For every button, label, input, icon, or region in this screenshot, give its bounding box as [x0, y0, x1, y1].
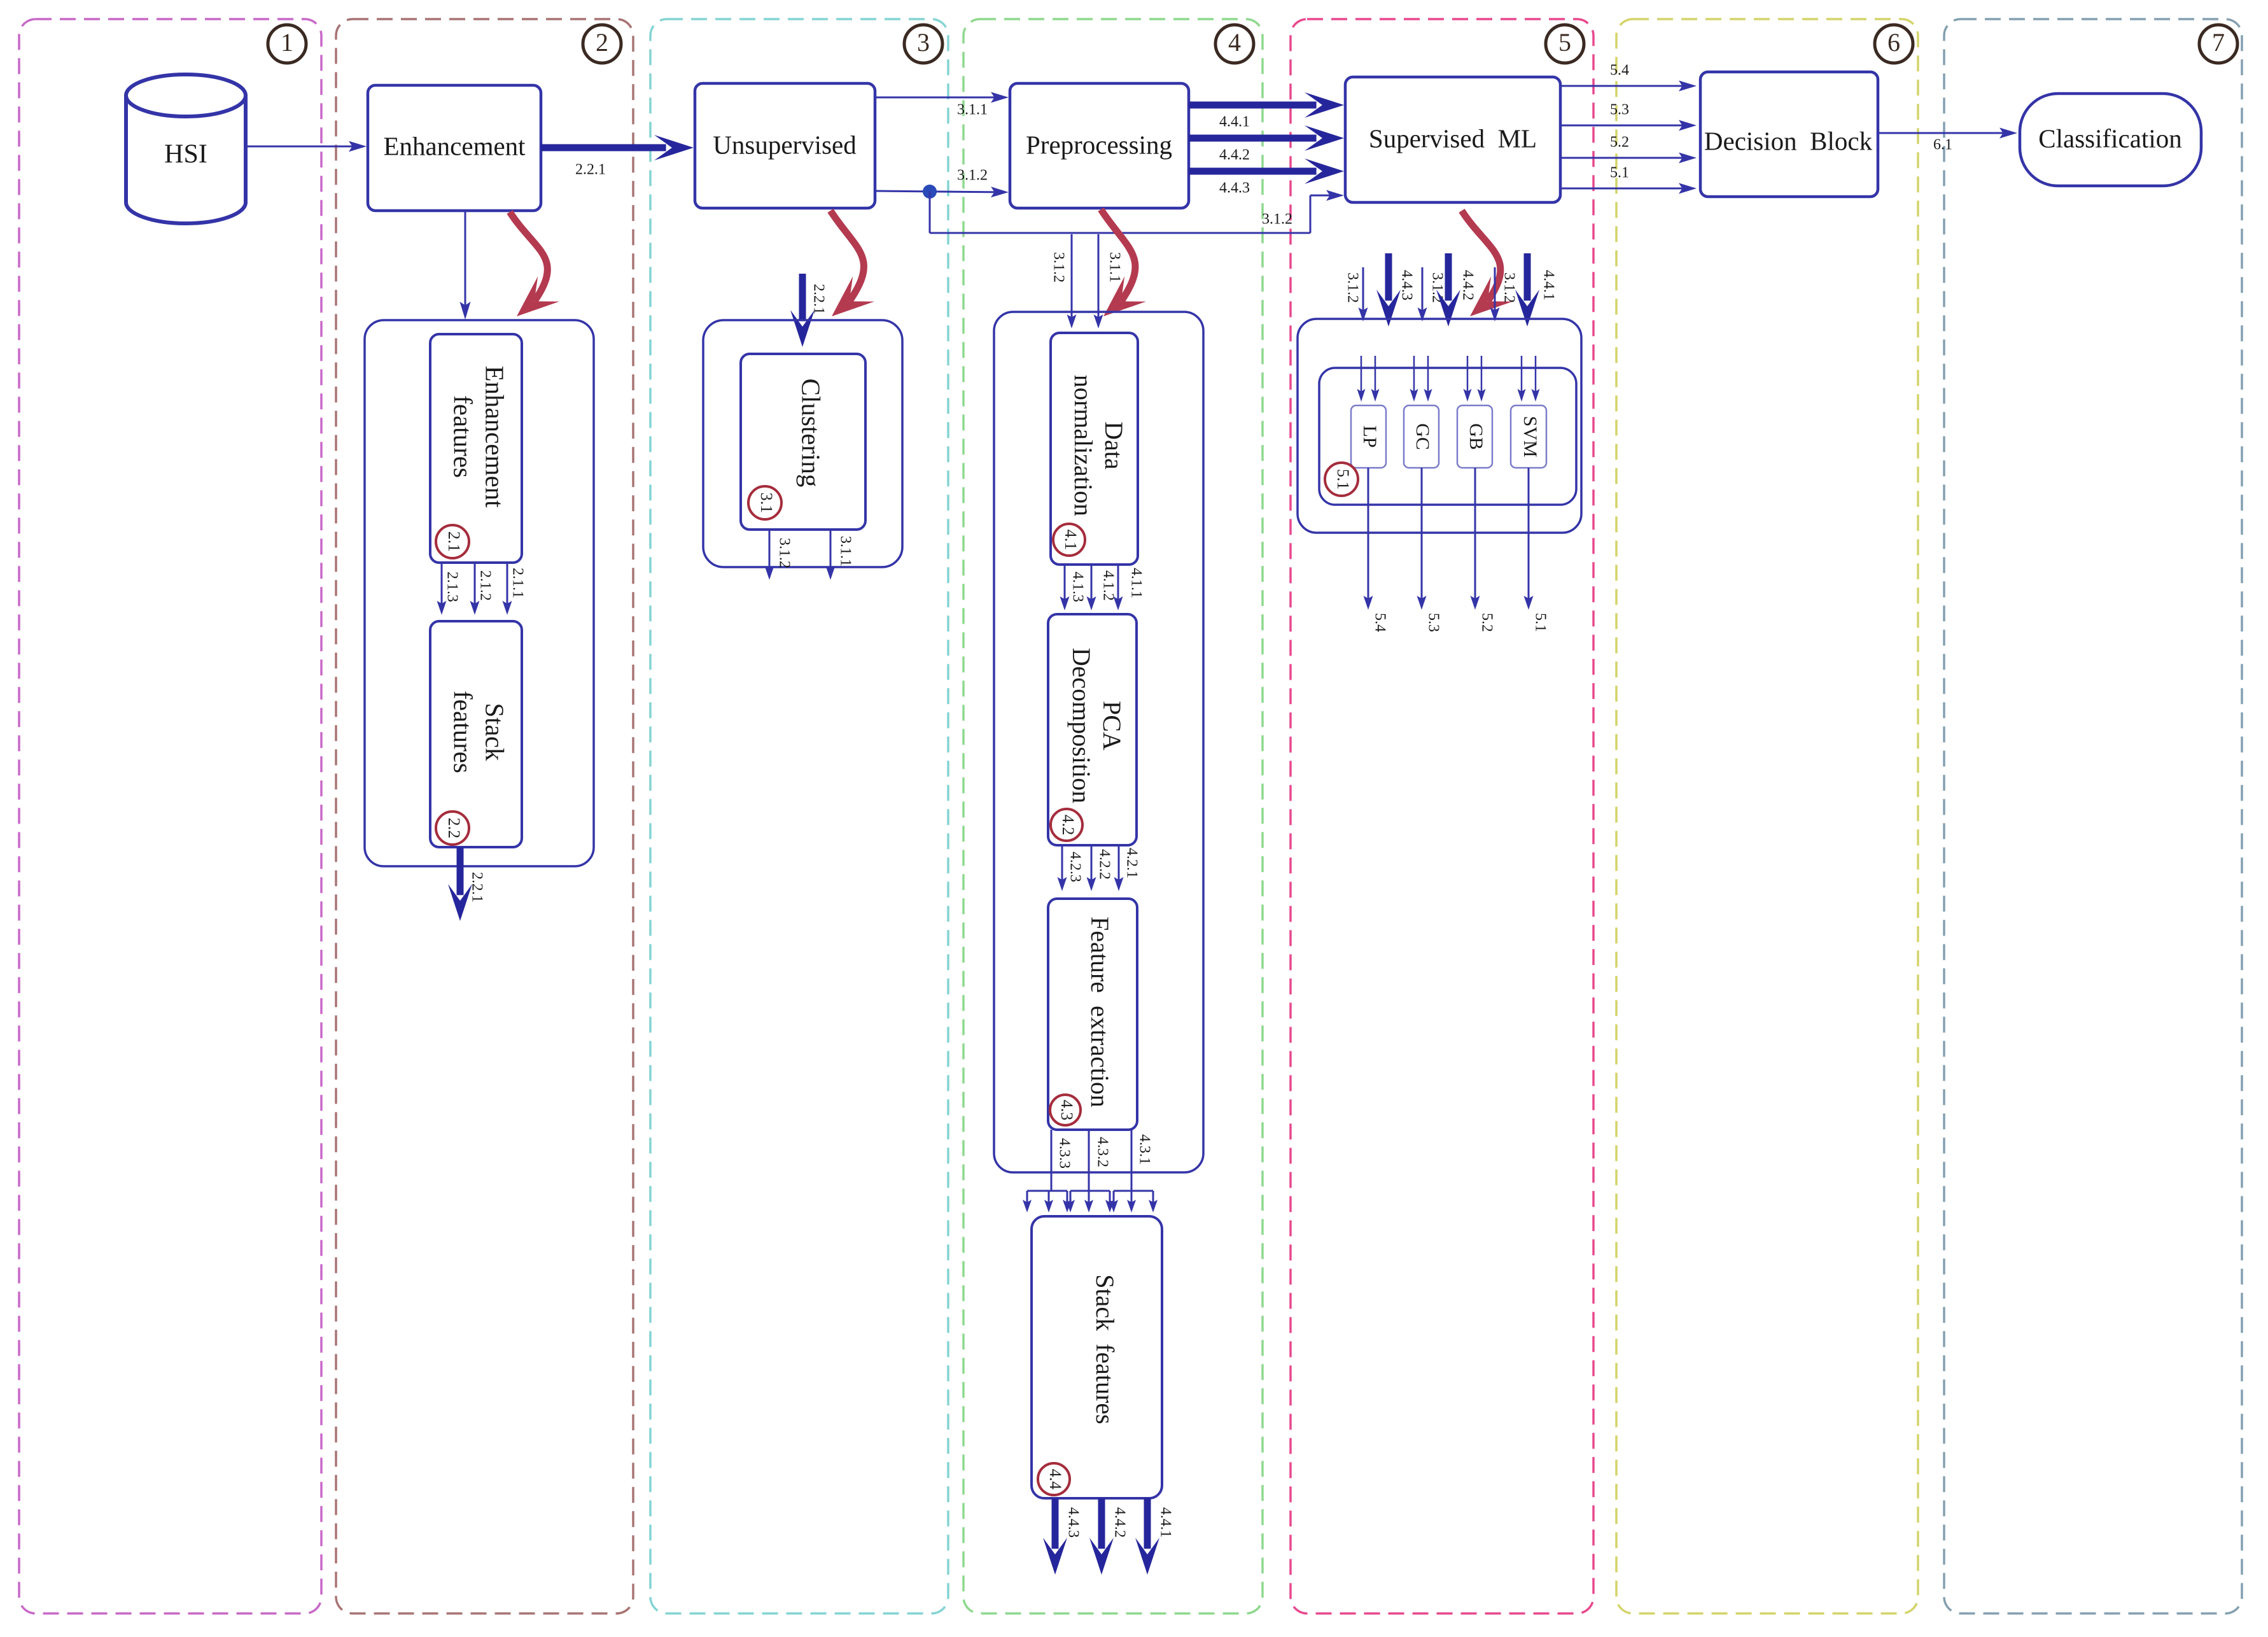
svg-text:HSI: HSI: [164, 140, 207, 169]
arrow 3.1.2 into ML container: [1362, 267, 1364, 314]
column frame 1: [19, 19, 321, 1613]
box GB: [1457, 405, 1492, 468]
svg-text:PCA: PCA: [1098, 701, 1126, 750]
red curved arrow into Clustering container: [830, 211, 864, 301]
arrow 3.1.1 Unsupervised to Preprocessing: [875, 97, 1000, 99]
circled number 7: [2199, 25, 2237, 63]
thick arrow 2.2.1 into Clustering container: [799, 274, 806, 321]
thick arrow 4.4.2 out: [1098, 1498, 1105, 1549]
svg-text:2.2.1: 2.2.1: [468, 872, 485, 903]
svg-text:4.2.3: 4.2.3: [1067, 852, 1083, 882]
arrow 5.4 out of container: [1368, 468, 1369, 603]
svg-text:Unsupervised: Unsupervised: [713, 130, 856, 159]
svg-text:6.1: 6.1: [1933, 137, 1952, 153]
arrow 4.2.2: [1091, 845, 1093, 884]
svg-text:Stack: Stack: [480, 703, 510, 761]
svg-text:4.4.1: 4.4.1: [1540, 270, 1557, 300]
arrows into LP: [1361, 356, 1362, 395]
box Clustering: [741, 354, 865, 530]
box Preprocessing: [1010, 83, 1189, 208]
svg-text:5.1: 5.1: [1334, 469, 1352, 490]
arrow 4.2.3: [1061, 845, 1063, 884]
box Stack features (col4): [1032, 1216, 1162, 1498]
svg-text:Decision Block: Decision Block: [1704, 126, 1873, 155]
junction dot 3.1.2: [923, 185, 937, 199]
column frame 7: [1944, 19, 2242, 1613]
thick arrow 2.2.1 Enhancement to Unsupervised: [541, 144, 666, 151]
svg-text:3.1.1: 3.1.1: [1106, 252, 1123, 283]
svg-text:4.4.3: 4.4.3: [1065, 1507, 1081, 1538]
svg-text:Feature extraction: Feature extraction: [1086, 917, 1114, 1107]
arrow HSI to Enhancement: [246, 146, 358, 148]
thick arrow 4.4.3 out: [1052, 1498, 1059, 1549]
column frame 6: [1616, 19, 1918, 1613]
thick arrow 2.2.1 out of Stack features: [457, 847, 464, 895]
arrow 3.1.1 into Data normalization: [1098, 234, 1100, 321]
svg-text:1: 1: [281, 28, 293, 57]
svg-text:4.3.1: 4.3.1: [1136, 1134, 1152, 1165]
arrow 5.2 Supervised ML to Decision Block: [1560, 157, 1688, 159]
svg-text:4.2: 4.2: [1059, 815, 1077, 836]
svg-text:Preprocessing: Preprocessing: [1026, 130, 1172, 159]
svg-text:2.1.1: 2.1.1: [509, 568, 526, 598]
container preprocessing stages: [994, 312, 1203, 1172]
svg-text:2.2.1: 2.2.1: [810, 284, 827, 314]
wire 3.1.2 junction down: [929, 192, 931, 233]
arrow 2.1.3: [441, 563, 443, 608]
circled number 1: [268, 25, 306, 63]
column frame 3: [650, 19, 948, 1613]
circled label 4.1: [1053, 524, 1085, 556]
wire 4.3.1 down: [1131, 1130, 1133, 1191]
svg-text:4: 4: [1228, 28, 1241, 57]
thick arrow 4.4.3 Preprocessing to Supervised ML: [1189, 168, 1317, 175]
arrow 2.1.2: [474, 563, 476, 608]
svg-text:3.1.1: 3.1.1: [957, 102, 988, 118]
box Stack features (col2): [430, 621, 522, 847]
arrow 2.1.1: [507, 563, 508, 608]
circled label 4.4: [1038, 1463, 1070, 1495]
svg-text:3.1.2: 3.1.2: [1050, 252, 1067, 283]
thick arrow 4.4.1 out: [1144, 1498, 1151, 1549]
arrow 5.3 out of container: [1421, 468, 1423, 603]
svg-text:4.3.3: 4.3.3: [1056, 1138, 1072, 1169]
box SVM: [1511, 405, 1546, 468]
red curved arrow into preprocessing container: [1101, 209, 1135, 301]
svg-text:4.4.3: 4.4.3: [1219, 180, 1250, 197]
container ML methods inner: [1319, 368, 1576, 505]
arrow 4.1.1: [1117, 565, 1119, 603]
svg-text:4.4.2: 4.4.2: [1219, 147, 1250, 164]
arrow 3.1.2 into Data normalization: [1071, 234, 1073, 321]
svg-text:2.2: 2.2: [445, 818, 463, 839]
svg-text:4.1: 4.1: [1061, 530, 1080, 551]
svg-text:4.4.2: 4.4.2: [1459, 270, 1476, 300]
thick arrow 4.4.1 into ML container: [1524, 253, 1531, 300]
svg-text:5.2: 5.2: [1610, 134, 1629, 151]
circled number 5: [1546, 25, 1584, 63]
circled label 5.1 (container): [1325, 463, 1358, 496]
red curved arrow into ML container: [1462, 211, 1501, 301]
svg-text:5.4: 5.4: [1371, 613, 1388, 632]
column frame 2: [336, 19, 633, 1613]
column frame 5: [1291, 19, 1593, 1613]
svg-text:5: 5: [1558, 28, 1571, 57]
svg-text:4.4.2: 4.4.2: [1111, 1507, 1128, 1538]
arrow Enhancement down to features container: [465, 211, 466, 311]
box Decision Block: [1700, 72, 1878, 197]
svg-text:3.1: 3.1: [757, 493, 776, 514]
svg-text:4.1.3: 4.1.3: [1069, 572, 1086, 602]
svg-text:GC: GC: [1412, 423, 1433, 450]
circled label 4.3: [1050, 1095, 1081, 1125]
box Enhancement features: [430, 334, 522, 563]
svg-text:4.4.3: 4.4.3: [1398, 270, 1415, 300]
fanout wires into Stack features: [1027, 1190, 1067, 1192]
svg-text:3.1.2: 3.1.2: [1344, 272, 1361, 303]
svg-text:Clustering: Clustering: [797, 379, 826, 488]
svg-text:Decomposition: Decomposition: [1067, 648, 1096, 803]
svg-text:2.2.1: 2.2.1: [575, 162, 606, 178]
arrow 3.1.2 into Supervised ML: [1310, 195, 1335, 197]
svg-text:GB: GB: [1466, 423, 1487, 450]
svg-text:2: 2: [596, 28, 608, 57]
arrow 5.4 Supervised ML to Decision Block: [1560, 85, 1688, 87]
thick arrow 4.4.3 into ML container: [1385, 253, 1392, 300]
svg-text:4.4: 4.4: [1046, 1469, 1065, 1490]
svg-text:3.1.2: 3.1.2: [776, 538, 792, 568]
arrow 5.2 out of container: [1474, 468, 1476, 603]
svg-text:5.1: 5.1: [1532, 613, 1548, 632]
svg-text:LP: LP: [1359, 425, 1380, 447]
circled number 3: [904, 25, 942, 63]
box LP: [1351, 405, 1386, 468]
arrow 3.1.2 into ML container: [1422, 267, 1424, 314]
arrow 3.1.2 Unsupervised to Preprocessing: [875, 191, 1000, 192]
arrow 6.1 Decision Block to Classification: [1878, 132, 2008, 134]
svg-text:2.1.2: 2.1.2: [477, 570, 493, 601]
arrow 5.1 out of container: [1528, 468, 1530, 603]
svg-text:3.1.2: 3.1.2: [1262, 211, 1292, 228]
svg-text:5.1: 5.1: [1610, 165, 1629, 181]
arrow 3.1.2 into ML container: [1494, 267, 1496, 314]
thick arrow 4.4.1 Preprocessing to Supervised ML: [1189, 102, 1317, 109]
svg-text:5.2: 5.2: [1478, 613, 1495, 632]
thick arrow 4.4.2 into ML container: [1445, 253, 1452, 300]
svg-text:4.1.2: 4.1.2: [1100, 570, 1116, 601]
svg-text:Classification: Classification: [2038, 123, 2181, 153]
circled label 2.1: [436, 525, 469, 558]
svg-text:5.3: 5.3: [1610, 102, 1629, 118]
arrow 3.1.1 out of Clustering: [830, 530, 832, 573]
wire 3.1.2 up to Supervised ML: [1310, 195, 1312, 233]
container Enhancement/Stack features: [365, 320, 594, 866]
svg-text:4.2.1: 4.2.1: [1123, 848, 1140, 878]
arrow 4.1.2: [1091, 565, 1093, 603]
svg-text:Data: Data: [1100, 421, 1128, 470]
box GC: [1404, 405, 1439, 468]
svg-text:4.4.1: 4.4.1: [1157, 1507, 1173, 1538]
svg-text:SVM: SVM: [1520, 416, 1541, 457]
column frame 4: [963, 19, 1263, 1613]
svg-text:4.3.2: 4.3.2: [1094, 1137, 1110, 1167]
svg-text:Stack features: Stack features: [1091, 1274, 1119, 1424]
svg-text:4.1.1: 4.1.1: [1128, 568, 1144, 598]
circled number 4: [1215, 25, 1254, 63]
box PCA Decomposition: [1048, 614, 1137, 845]
svg-text:2.1.3: 2.1.3: [444, 572, 460, 602]
circled label 3.1: [748, 486, 781, 519]
container ML methods outer: [1298, 319, 1581, 533]
stadium Classification: [2020, 94, 2201, 186]
svg-text:4.3: 4.3: [1058, 1100, 1076, 1121]
container Clustering: [703, 320, 902, 567]
box Unsupervised: [695, 83, 875, 208]
svg-text:5.4: 5.4: [1610, 62, 1629, 79]
svg-text:3.1.2: 3.1.2: [1429, 272, 1445, 303]
arrow 5.1 Supervised ML to Decision Block: [1560, 188, 1688, 190]
svg-text:5.3: 5.3: [1425, 613, 1441, 632]
arrows into GC: [1413, 356, 1415, 395]
arrow 4.1.3: [1064, 565, 1066, 603]
svg-text:3: 3: [917, 28, 930, 57]
thick arrow 4.4.2 Preprocessing to Supervised ML: [1189, 135, 1317, 142]
wire 3.1.2 horizontal: [930, 232, 1310, 234]
svg-text:4.2.2: 4.2.2: [1096, 849, 1112, 880]
circled number 6: [1875, 25, 1913, 63]
svg-text:3.1.1: 3.1.1: [837, 536, 853, 566]
svg-text:Enhancement: Enhancement: [383, 131, 526, 160]
arrow 3.1.2 out of Clustering: [769, 530, 771, 573]
circled label 4.2: [1051, 809, 1082, 841]
svg-text:4.4.1: 4.4.1: [1219, 114, 1250, 130]
wire 4.3.2 down: [1088, 1130, 1090, 1191]
database cylinder HSI: [126, 95, 246, 223]
box Enhancement: [368, 85, 541, 211]
box Supervised ML: [1345, 77, 1560, 202]
svg-text:7: 7: [2212, 28, 2225, 57]
svg-text:normalization: normalization: [1069, 375, 1098, 516]
svg-text:6: 6: [1887, 28, 1900, 57]
arrows into SVM: [1521, 356, 1523, 395]
svg-text:3.1.2: 3.1.2: [1501, 272, 1517, 303]
arrows into GB: [1467, 356, 1469, 395]
arrow 4.2.1: [1118, 845, 1120, 884]
svg-text:Supervised ML: Supervised ML: [1369, 123, 1537, 153]
box Data normalization: [1051, 333, 1138, 565]
wire 4.3.3 down: [1051, 1130, 1053, 1191]
svg-text:features: features: [449, 395, 478, 478]
red curved arrow into features container: [510, 212, 547, 301]
circled label 2.2: [436, 811, 469, 845]
svg-text:2.1: 2.1: [445, 531, 463, 552]
svg-text:Enhancement: Enhancement: [480, 365, 510, 508]
arrow 5.3 Supervised ML to Decision Block: [1560, 125, 1688, 127]
svg-text:features: features: [449, 691, 478, 773]
box Feature extraction: [1048, 899, 1137, 1130]
svg-text:3.1.2: 3.1.2: [957, 167, 988, 184]
circled number 2: [583, 25, 621, 63]
